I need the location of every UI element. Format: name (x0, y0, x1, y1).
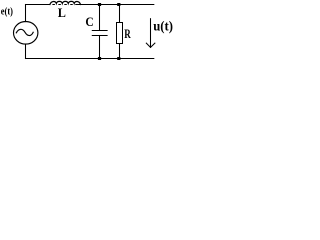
svg-text:R: R (124, 27, 131, 41)
capacitor top plate (92, 30, 107, 32)
wire left vertical lower (25, 44, 27, 59)
svg-text:C: C (85, 15, 93, 29)
junction dot top R (117, 3, 120, 6)
junction dot top C (98, 3, 101, 6)
wire capacitor branch lower (99, 36, 101, 59)
resistor box (117, 23, 123, 44)
wire resistor branch lower (119, 44, 121, 59)
source ellipse (14, 22, 38, 45)
wire top-right segment (76, 4, 154, 6)
coil loop bottom dash 1 (53, 4, 55, 6)
wire top-left segment (26, 4, 50, 6)
inductor L coil (50, 1, 81, 4)
sine symbol (16, 29, 33, 35)
arrow u(t) head left wing (146, 43, 150, 47)
coil loop bottom dash 4 (71, 4, 73, 6)
capacitor bottom plate (92, 35, 107, 37)
wire bottom (26, 58, 154, 60)
wire left vertical upper (25, 5, 27, 22)
junction dot bottom C (98, 57, 101, 60)
arrow u(t) shaft (150, 19, 152, 47)
svg-text:u(t): u(t) (153, 19, 173, 34)
arrow u(t) head right wing (151, 43, 155, 47)
svg-text:L: L (58, 6, 66, 20)
coil loop bottom dash 2 (59, 4, 61, 6)
svg-text:e(t): e(t) (1, 5, 13, 17)
wire capacitor branch upper (99, 5, 101, 31)
junction dot bottom R (117, 57, 120, 60)
wire resistor branch upper (119, 5, 121, 23)
coil loop bottom dash 3 (65, 4, 67, 6)
